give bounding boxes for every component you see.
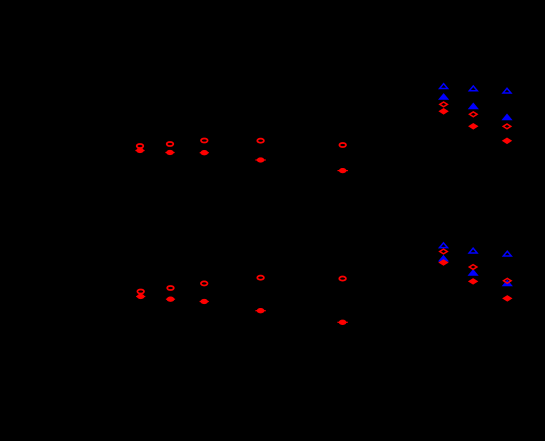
top-right cluster col 3 filled diamond — [503, 138, 511, 143]
bottom-right cluster col 3 open triangle — [503, 251, 511, 256]
bottom panel open circle point 4 — [257, 276, 264, 280]
bottom-right cluster col 3 filled triangle — [503, 281, 511, 286]
bottom panel filled circle point 1 — [136, 296, 145, 298]
top panel filled circle point 5 — [338, 170, 348, 172]
bottom panel open circle point 3 — [201, 281, 208, 285]
bottom-right cluster col 3 filled diamond — [504, 296, 512, 301]
bottom-right cluster col 2 open triangle — [469, 248, 477, 253]
bottom panel open circle point 2 — [167, 286, 174, 290]
bottom-right cluster col 2 filled diamond — [469, 279, 477, 284]
top-right cluster col 1 filled triangle — [440, 94, 448, 99]
bottom-right cluster col 1 filled triangle — [440, 256, 448, 261]
bottom panel open circle point 1 — [137, 289, 144, 293]
top-right cluster col 3 open triangle — [503, 88, 511, 93]
top panel filled circle point 3 — [200, 152, 209, 154]
top panel open circle point 3 — [201, 138, 208, 142]
top panel filled circle point 1 — [135, 150, 144, 152]
top-right cluster col 1 open diamond — [440, 102, 448, 107]
top-right cluster col 2 open triangle — [469, 86, 477, 91]
bottom-right cluster col 1 open diamond — [440, 249, 448, 254]
bottom-right cluster col 2 open diamond — [469, 265, 477, 270]
bottom panel filled circle point 3 — [200, 301, 209, 303]
bottom-right cluster col 1 open triangle — [440, 243, 448, 248]
top-right cluster col 1 open triangle — [440, 84, 448, 89]
top panel filled circle point 2 — [165, 152, 174, 154]
top panel open circle point 4 — [257, 139, 264, 143]
top-right cluster col 1 filled diamond — [440, 109, 448, 114]
top-right cluster col 3 filled triangle — [503, 115, 511, 120]
top-right cluster col 2 filled triangle — [469, 104, 477, 109]
top panel filled circle point 4 — [255, 159, 265, 161]
bottom-right cluster col 3 open diamond — [504, 278, 512, 283]
top-right cluster col 2 filled diamond — [470, 124, 478, 129]
bottom panel filled circle point 2 — [166, 298, 175, 300]
bottom-right cluster col 1 filled diamond — [440, 260, 448, 265]
top panel open circle point 1 — [137, 144, 144, 148]
bottom panel filled circle point 5 — [337, 321, 347, 323]
top panel open circle point 5 — [339, 143, 346, 147]
top-right cluster col 2 open diamond — [470, 112, 478, 117]
bottom-right cluster col 2 filled triangle — [469, 270, 477, 275]
bottom panel filled circle point 4 — [255, 310, 265, 312]
top panel open circle point 2 — [167, 142, 174, 146]
bottom panel open circle point 5 — [339, 277, 346, 281]
top-right cluster col 3 open diamond — [503, 124, 511, 129]
